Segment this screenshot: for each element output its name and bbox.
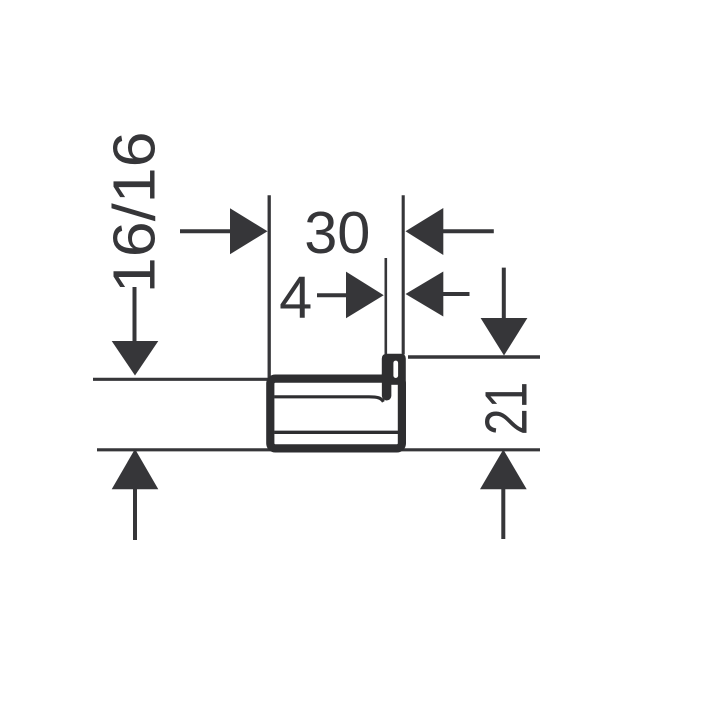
bottom reference line: [97, 448, 540, 451]
profile hook: [382, 374, 392, 396]
extension line B x=404: [402, 195, 405, 354]
svg-text:16/16: 16/16: [101, 131, 168, 293]
profile bar bridge under slot: [391, 381, 400, 385]
profile hanger tab: [382, 354, 406, 384]
bottom-left up arrow: [112, 449, 159, 540]
svg-text:30: 30: [304, 199, 370, 266]
dim 4 right-pointing arrow: [317, 272, 384, 319]
dim 30 left-pointing arrow: [406, 208, 494, 255]
profile inner line lower: [274, 431, 399, 434]
dim 21 down arrow: [481, 268, 528, 356]
svg-text:4: 4: [279, 264, 312, 331]
wall reference line left: [93, 378, 270, 381]
top-right reference line: [408, 355, 540, 358]
extension line C x=385.8: [384, 258, 387, 355]
extension line A x=270: [268, 195, 271, 379]
dim 16/16 down arrow: [112, 287, 159, 376]
dim 16/16 right-pointing arrow: [180, 208, 268, 254]
profile tab slot (white): [393, 361, 398, 378]
bottom-right up arrow: [480, 450, 527, 540]
profile inner line upper: [274, 397, 383, 402]
dim 4 left-pointing arrow: [406, 272, 470, 317]
svg-text:21: 21: [473, 382, 540, 436]
profile body outline: [270, 379, 402, 449]
